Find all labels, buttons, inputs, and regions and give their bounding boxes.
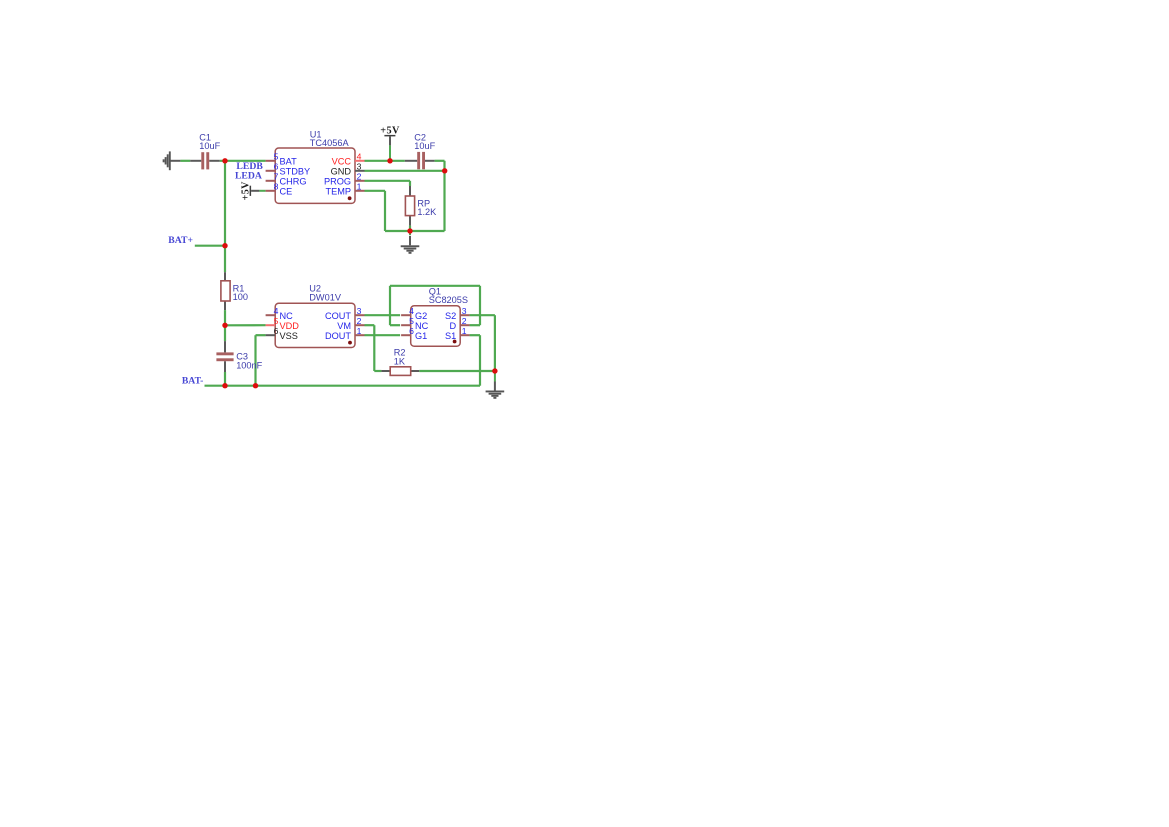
Q1 pin 3 S2 bbox=[445, 306, 470, 321]
pin lead bbox=[266, 160, 276, 162]
pin lead bbox=[355, 334, 365, 336]
power +5V flag (top) bbox=[380, 126, 400, 161]
U2 pin-1 marker dot bbox=[348, 341, 352, 345]
svg-text:NC: NC bbox=[415, 321, 429, 331]
IC U2 body bbox=[275, 303, 355, 347]
wire GND pin to right rail bbox=[365, 170, 445, 172]
Q1 ref/value labels bbox=[429, 286, 468, 305]
R2 value labels bbox=[394, 348, 406, 367]
wire TEMP down to ground rail bbox=[365, 191, 445, 231]
U2 pin 6 VSS bbox=[266, 326, 298, 341]
U1 pin 3 GND bbox=[331, 162, 365, 177]
svg-text:100nF: 100nF bbox=[236, 360, 262, 370]
pin lead bbox=[401, 314, 411, 316]
Q1 pin 6 G1 bbox=[401, 326, 427, 341]
power +5V flag at CE pin (rotated) bbox=[240, 181, 265, 200]
Q1 pin 4 G2 bbox=[401, 306, 427, 321]
junction GND/C2 node bbox=[442, 168, 447, 173]
pin lead bbox=[355, 180, 365, 182]
svg-text:6: 6 bbox=[274, 326, 279, 336]
wire NC-D top loop bbox=[390, 286, 480, 325]
svg-text:6: 6 bbox=[409, 326, 414, 336]
pin lead bbox=[460, 324, 470, 326]
svg-text:TEMP: TEMP bbox=[325, 186, 351, 196]
wire R1 to VDD node bbox=[225, 310, 266, 341]
wire C3 to BAT- line bbox=[224, 372, 226, 386]
ground GND2 (below RP) bbox=[401, 231, 420, 254]
svg-text:STDBY: STDBY bbox=[280, 166, 311, 176]
IC U1 body bbox=[275, 148, 355, 203]
svg-text:BAT-: BAT- bbox=[182, 375, 204, 386]
svg-text:S1: S1 bbox=[445, 331, 456, 341]
junction R1/VDD/C3 node bbox=[222, 323, 227, 328]
svg-text:G2: G2 bbox=[415, 311, 427, 321]
net label LEDB bbox=[236, 161, 263, 172]
wire VSS riser bbox=[256, 335, 266, 386]
ground GND3 (bottom right) bbox=[486, 371, 505, 399]
junction C3/BAT- node bbox=[222, 383, 227, 388]
svg-text:PROG: PROG bbox=[324, 176, 351, 186]
U1 pin 8 CE bbox=[266, 182, 293, 197]
net label BAT- bbox=[182, 375, 204, 386]
wire BAT+ column vertical bbox=[224, 161, 226, 272]
capacitor C2 bbox=[405, 152, 435, 169]
svg-text:3: 3 bbox=[462, 306, 467, 316]
pin lead bbox=[355, 314, 365, 316]
svg-text:S2: S2 bbox=[445, 311, 456, 321]
ground GND1 (left, rotated) bbox=[163, 151, 181, 170]
svg-text:5: 5 bbox=[409, 316, 414, 326]
wire VCC net to C2 bbox=[365, 160, 405, 162]
svg-text:DOUT: DOUT bbox=[325, 331, 351, 341]
svg-text:NC: NC bbox=[280, 311, 294, 321]
svg-text:8: 8 bbox=[274, 182, 279, 192]
svg-text:4: 4 bbox=[274, 306, 279, 316]
svg-text:LEDA: LEDA bbox=[235, 170, 262, 181]
net label BAT+ bbox=[168, 235, 225, 246]
svg-text:5: 5 bbox=[274, 316, 279, 326]
svg-text:3: 3 bbox=[357, 306, 362, 316]
junction RP/ground node bbox=[407, 228, 412, 233]
wire DOUT to G1 bbox=[365, 334, 401, 336]
svg-text:1K: 1K bbox=[394, 357, 406, 367]
svg-text:DW01V: DW01V bbox=[309, 292, 342, 302]
svg-text:VSS: VSS bbox=[280, 331, 298, 341]
svg-text:VCC: VCC bbox=[332, 156, 352, 166]
junction VSS/BAT- node bbox=[253, 383, 258, 388]
U1 pin 1 TEMP bbox=[325, 182, 364, 197]
pin lead bbox=[401, 334, 411, 336]
net label LEDA bbox=[235, 170, 262, 181]
wire COUT to G2 bbox=[365, 314, 401, 316]
svg-text:CHRG: CHRG bbox=[280, 176, 307, 186]
svg-text:2: 2 bbox=[462, 316, 467, 326]
svg-text:VM: VM bbox=[337, 321, 351, 331]
svg-text:1: 1 bbox=[357, 326, 362, 336]
U2 pin 1 DOUT bbox=[325, 326, 365, 341]
U1 pin 4 VCC bbox=[332, 152, 365, 167]
pin lead bbox=[460, 314, 470, 316]
svg-text:1: 1 bbox=[357, 182, 362, 192]
U1 pin 2 PROG bbox=[324, 172, 365, 187]
wire R2 to ground node bbox=[419, 370, 495, 372]
resistor RP bbox=[405, 186, 414, 226]
pin lead bbox=[266, 180, 276, 182]
U2 ref/value labels bbox=[309, 284, 342, 303]
capacitor C3 bbox=[216, 341, 233, 372]
U1 pin 5 BAT bbox=[266, 152, 297, 167]
pin lead bbox=[401, 324, 411, 326]
wire S1 riser to BAT- line bbox=[470, 335, 480, 386]
wire from left ground to U1 BAT pin (green segments) bbox=[180, 160, 265, 162]
svg-text:6: 6 bbox=[274, 162, 279, 172]
U1 pin 6 STDBY bbox=[266, 162, 311, 177]
svg-text:3: 3 bbox=[357, 162, 362, 172]
wire BAT- horizontal line bbox=[205, 385, 481, 387]
pin lead bbox=[355, 160, 365, 162]
wire PROG to RP bbox=[365, 181, 411, 186]
node A junction at C1 / BAT+ column bbox=[0, 0, 1, 1]
svg-text:VDD: VDD bbox=[280, 321, 300, 331]
svg-text:COUT: COUT bbox=[325, 311, 351, 321]
svg-text:4: 4 bbox=[409, 306, 414, 316]
C2 value labels bbox=[414, 132, 435, 151]
U1 ref/value labels bbox=[310, 129, 350, 148]
U1 pin 7 CHRG bbox=[266, 172, 307, 187]
svg-text:BAT: BAT bbox=[280, 156, 298, 166]
svg-text:1: 1 bbox=[462, 326, 467, 336]
svg-text:1.2K: 1.2K bbox=[417, 207, 437, 217]
R1 value labels bbox=[233, 283, 248, 302]
RP value labels bbox=[417, 198, 437, 217]
capacitor C1 bbox=[190, 152, 220, 169]
pin lead bbox=[460, 334, 470, 336]
pin lead bbox=[266, 324, 276, 326]
C1 value labels bbox=[199, 132, 220, 151]
svg-text:D: D bbox=[450, 321, 457, 331]
resistor R1 bbox=[221, 272, 230, 310]
pin lead bbox=[266, 170, 276, 172]
svg-text:10uF: 10uF bbox=[414, 141, 435, 151]
junction +5V tap bbox=[387, 158, 392, 163]
svg-text:10uF: 10uF bbox=[199, 141, 220, 151]
Q1 pin-1 marker dot bbox=[453, 340, 457, 344]
svg-text:100: 100 bbox=[233, 292, 248, 302]
svg-text:CE: CE bbox=[280, 186, 293, 196]
svg-text:BAT+: BAT+ bbox=[168, 235, 193, 246]
junction R2/S2/ground node bbox=[492, 368, 497, 373]
svg-text:SC8205S: SC8205S bbox=[429, 295, 468, 305]
U2 pin 4 NC bbox=[266, 306, 294, 321]
pin lead bbox=[266, 314, 276, 316]
svg-text:TC4056A: TC4056A bbox=[310, 138, 350, 148]
U2 pin 5 VDD bbox=[266, 316, 300, 331]
junction C1/BAT+ node bbox=[222, 158, 227, 163]
IC Q1 body bbox=[411, 306, 461, 347]
svg-text:5: 5 bbox=[274, 152, 279, 162]
Q1 pin 2 D bbox=[450, 316, 470, 331]
svg-text:G1: G1 bbox=[415, 331, 427, 341]
pin lead bbox=[355, 190, 365, 192]
wire VM to R2 bbox=[365, 325, 382, 371]
svg-text:4: 4 bbox=[357, 152, 362, 162]
C3 value labels bbox=[236, 352, 262, 371]
pin lead bbox=[266, 334, 276, 336]
pin lead bbox=[355, 324, 365, 326]
wire C2 right down to bottom rail bbox=[435, 161, 445, 231]
U2 pin 2 VM bbox=[337, 316, 364, 331]
resistor R2 bbox=[381, 367, 419, 376]
svg-text:GND: GND bbox=[331, 166, 352, 176]
svg-text:7: 7 bbox=[274, 172, 279, 182]
pin lead bbox=[355, 170, 365, 172]
junction BAT+ label tap bbox=[222, 243, 227, 248]
wire S2 to ground node bbox=[470, 315, 495, 371]
Q1 pin 5 NC bbox=[401, 316, 429, 331]
svg-text:2: 2 bbox=[357, 316, 362, 326]
Q1 pin 1 S1 bbox=[445, 326, 470, 341]
pin lead bbox=[266, 190, 276, 192]
U2 pin 3 COUT bbox=[325, 306, 365, 321]
U1 pin-1 marker dot bbox=[348, 196, 352, 200]
svg-text:2: 2 bbox=[357, 172, 362, 182]
